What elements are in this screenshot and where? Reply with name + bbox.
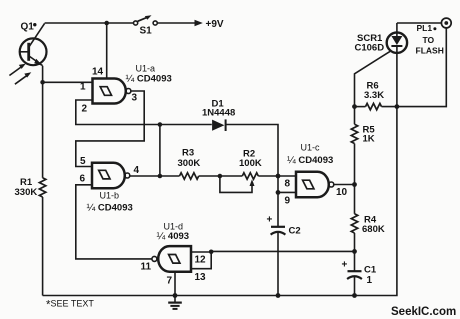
svg-text:SeekIC.com: SeekIC.com <box>391 306 456 318</box>
svg-text:U1-d: U1-d <box>164 222 184 232</box>
wire pin8/pin9 tie vertical with C2 branch <box>277 176 279 227</box>
svg-text:8: 8 <box>285 179 291 190</box>
svg-text:+: + <box>267 215 273 226</box>
node D1 rail / feedback junction <box>158 122 163 127</box>
resistor R3 300K <box>178 147 201 179</box>
node R2 left terminal / wiper tie <box>218 174 223 179</box>
diode D1 1N4448 <box>202 99 235 132</box>
wire gate line from divider to SCR <box>355 51 391 124</box>
wire R1 to bottom rail <box>42 197 44 296</box>
svg-text:2: 2 <box>82 104 88 115</box>
wire R5 to pin 10 node <box>354 144 356 214</box>
svg-text:¼ CD4093: ¼ CD4093 <box>287 154 333 166</box>
svg-text:7: 7 <box>167 276 173 287</box>
potentiometer R2 100K <box>220 148 262 192</box>
svg-text:+9V: +9V <box>206 19 224 30</box>
svg-text:C106D: C106D <box>355 43 385 54</box>
svg-text:Q1: Q1 <box>21 22 35 33</box>
wire pin 14 of U1-a <box>106 23 108 79</box>
svg-text:1: 1 <box>367 275 373 286</box>
wire pin 10 output to divider <box>334 184 355 186</box>
wire SCR anode to PL1 <box>397 22 442 24</box>
wire C2 bottom to rail <box>277 232 279 296</box>
svg-text:4: 4 <box>134 165 140 176</box>
resistor R1 <box>15 177 46 198</box>
phototransistor Q1 <box>20 22 47 67</box>
svg-text:U1-c: U1-c <box>301 143 321 153</box>
node emitter / pin 1 junction <box>40 80 45 85</box>
wire pin 9 of U1-c <box>278 191 296 193</box>
node R6 left junction <box>352 104 357 109</box>
svg-text:14: 14 <box>92 67 104 78</box>
svg-text:¼ 4093: ¼ 4093 <box>157 230 190 242</box>
svg-text:U1-a: U1-a <box>136 64 156 74</box>
svg-text:¼ CD4093: ¼ CD4093 <box>126 73 172 85</box>
wire pin 2 of U1-a down to D1 rail <box>76 100 212 125</box>
svg-text:3: 3 <box>132 93 138 104</box>
svg-text:1K: 1K <box>363 134 375 145</box>
svg-text:10: 10 <box>336 187 348 198</box>
svg-text:3.3K: 3.3K <box>364 90 384 101</box>
wire pin 3 output feedback to pin 5 of U1-b <box>76 91 144 167</box>
node C1 bottom junction <box>352 293 357 298</box>
svg-text:R3: R3 <box>182 147 194 158</box>
node pin 9 junction <box>276 190 281 195</box>
node ground junction <box>173 293 178 298</box>
connector PL1 <box>416 18 452 55</box>
node pin 10 junction <box>352 182 357 187</box>
svg-text:11: 11 <box>141 262 152 273</box>
wire R6 rail to PL1 <box>355 106 366 108</box>
wire pin 7 to ground <box>174 272 176 296</box>
svg-text:300K: 300K <box>178 158 201 169</box>
+9V supply arrow <box>195 20 203 26</box>
svg-text:FLASH: FLASH <box>416 46 444 56</box>
wire top rail from Q1 collector to S1 <box>45 22 134 24</box>
svg-text:5: 5 <box>80 156 86 167</box>
resistor R4 680K <box>351 214 385 235</box>
svg-text:680K: 680K <box>362 224 385 235</box>
node pin 8 junction <box>276 174 281 179</box>
svg-text:1N4448: 1N4448 <box>202 108 235 119</box>
svg-text:13: 13 <box>195 272 207 283</box>
wire bottom rail <box>43 53 397 296</box>
wire R2 to pin 8 node <box>258 175 278 177</box>
wire pin 8 of U1-c <box>278 175 296 177</box>
op-amp U1-a NAND gate <box>80 64 172 115</box>
svg-text:U1-b: U1-b <box>100 191 120 201</box>
wire pin 4 output to R3 <box>130 175 180 177</box>
wire pins 12/13 to C1 node <box>211 250 354 252</box>
wire R4 to C1 node <box>354 233 356 271</box>
node C2 bottom junction <box>276 293 281 298</box>
op-amp U1-b NAND gate <box>80 156 140 214</box>
node pin4 feedback junction <box>158 174 163 179</box>
svg-text:6: 6 <box>80 174 86 185</box>
light arrow 2 into Q1 <box>15 72 31 84</box>
svg-text:9: 9 <box>285 196 291 207</box>
node SCR cathode junction <box>395 104 400 109</box>
wire D1 cathode to pin 8 node <box>226 125 278 177</box>
svg-text:+: + <box>342 260 348 271</box>
svg-text:12: 12 <box>195 255 207 266</box>
wire Q1 emitter down to R1 and bottom rail <box>42 66 44 178</box>
svg-text:1: 1 <box>80 82 86 93</box>
capacitor C2 <box>267 215 301 237</box>
svg-text:S1: S1 <box>140 26 153 37</box>
svg-text:C1: C1 <box>364 265 377 276</box>
svg-text:100K: 100K <box>239 158 262 169</box>
svg-text:*SEE TEXT: *SEE TEXT <box>46 299 94 312</box>
wire pin 1 of U1-a <box>43 81 93 83</box>
capacitor C1 <box>342 260 377 287</box>
resistor R5 1K <box>351 124 375 144</box>
wire C1 bottom to rail <box>354 276 356 295</box>
op-amp U1-d NAND gate (mirrored) <box>141 222 207 287</box>
svg-text:C2: C2 <box>289 226 301 237</box>
node pin14 junction <box>104 21 109 26</box>
ground <box>168 296 182 309</box>
thyristor SCR1 C106D <box>355 23 408 54</box>
wire R6 to PL1 riser <box>382 28 447 107</box>
wire pin 11 output to pin 6 of U1-b <box>76 185 152 259</box>
wire R3 to R2 <box>199 175 243 177</box>
node pin 12 junction <box>209 250 214 255</box>
wire feedback vertical to pin 4 wire <box>159 125 161 177</box>
switch S1 <box>134 15 158 36</box>
wire S1 to +9V arrow <box>157 22 196 24</box>
svg-text:TO: TO <box>423 35 435 45</box>
light arrow 1 into Q1 <box>9 64 25 76</box>
wire pins 12 and 13 tie <box>191 252 211 269</box>
svg-text:330K: 330K <box>15 187 38 198</box>
node C1 top junction <box>352 249 357 254</box>
op-amp U1-c NAND gate <box>285 143 348 207</box>
svg-text:¼ CD4093: ¼ CD4093 <box>87 202 133 214</box>
svg-text:PL1: PL1 <box>417 23 433 33</box>
resistor R6 3.3K <box>364 81 384 110</box>
